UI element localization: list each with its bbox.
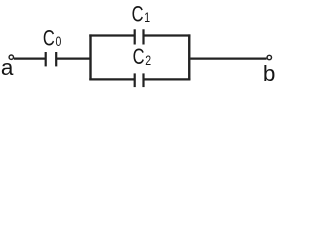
svg-text:1: 1 [144, 10, 150, 26]
svg-text:a: a [1, 55, 14, 80]
svg-text:2: 2 [145, 53, 151, 69]
svg-text:C: C [133, 45, 145, 70]
svg-text:0: 0 [55, 34, 61, 50]
svg-text:C: C [43, 26, 55, 51]
svg-text:b: b [263, 61, 276, 86]
svg-text:C: C [132, 2, 144, 27]
